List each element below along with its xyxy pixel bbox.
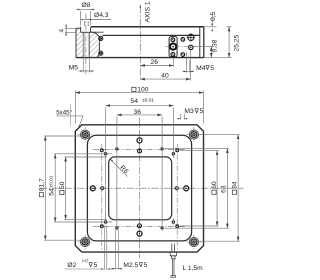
svg-text:Ø8: Ø8 <box>82 2 91 9</box>
connector barrel <box>170 44 176 50</box>
dim square-81,7 left <box>44 136 86 240</box>
M3 / M2,5 row holes <box>115 147 163 229</box>
svg-text:36: 36 <box>134 109 142 116</box>
svg-text:5: 5 <box>94 262 98 269</box>
svg-text:M2.5: M2.5 <box>123 262 138 269</box>
hole row centerline top <box>93 149 186 151</box>
cable exit lines <box>171 244 173 253</box>
dim 54 left <box>54 154 112 222</box>
dim dowel hole leader lines <box>65 226 114 271</box>
svg-text:50: 50 <box>59 181 66 189</box>
left block outline <box>76 27 99 58</box>
svg-text:40: 40 <box>161 72 169 79</box>
body short step line <box>91 31 104 33</box>
hole row centerline bottom <box>93 226 186 228</box>
corner bolt TL <box>81 130 90 139</box>
dim 4 <box>65 24 77 36</box>
body bottom line <box>76 57 204 59</box>
svg-text:60: 60 <box>211 181 218 189</box>
R6 leader <box>110 159 128 177</box>
svg-text:54: 54 <box>49 188 56 196</box>
svg-text:H7: H7 <box>82 258 88 264</box>
left block hatch right part <box>89 32 99 57</box>
dim 40 <box>140 78 190 80</box>
dim M2,5 leader <box>111 230 123 270</box>
dim Ø8 <box>77 9 95 25</box>
svg-text:81,7: 81,7 <box>38 178 45 191</box>
body screw top <box>181 38 185 42</box>
svg-text:5: 5 <box>200 108 204 115</box>
dim 9,38 <box>193 45 214 47</box>
dim M5 <box>79 58 95 73</box>
plan horizontal centerline <box>40 187 244 189</box>
svg-text:R6: R6 <box>118 164 129 175</box>
svg-text:Ø2: Ø2 <box>67 262 76 269</box>
svg-text:25,25: 25,25 <box>234 34 241 51</box>
svg-text:±0,01: ±0,01 <box>48 175 54 187</box>
position target circle <box>187 33 195 41</box>
svg-text:±0,01: ±0,01 <box>142 98 154 104</box>
cable plug body <box>170 252 176 256</box>
dowel holes 54 pattern <box>104 153 174 224</box>
dim M4 depth 5 <box>183 52 195 73</box>
dim 25,25 <box>204 57 231 59</box>
M4 hole <box>189 45 193 49</box>
connector screw top <box>171 38 175 42</box>
dim 0,5 <box>204 26 216 28</box>
svg-text:Ø4,3: Ø4,3 <box>94 12 109 19</box>
platform rounded square <box>109 157 172 220</box>
dim square-60 right <box>180 151 219 226</box>
svg-text:63: 63 <box>221 185 228 193</box>
mystery ext line <box>69 104 71 126</box>
svg-text:84: 84 <box>231 181 238 189</box>
plan vertical centerline <box>139 118 141 259</box>
corner bolt BL <box>81 237 90 246</box>
axis 1 arrow <box>140 5 142 8</box>
left block hatch left part <box>76 28 83 57</box>
dim Ø4,3 <box>84 20 111 27</box>
square-60 corner holes <box>100 148 179 228</box>
recess rounded square <box>87 135 191 241</box>
svg-text:26: 26 <box>151 59 159 66</box>
svg-text:100: 100 <box>137 87 148 94</box>
dim 54 top <box>106 106 174 225</box>
corner bolt centerline crosses <box>78 127 202 249</box>
svg-text:5: 5 <box>144 262 148 269</box>
body screw bottom <box>181 53 185 57</box>
body platform top line <box>91 26 204 28</box>
cable wire <box>172 259 174 276</box>
svg-text:5: 5 <box>210 65 214 72</box>
svg-text:L 1,5m: L 1,5m <box>183 265 204 272</box>
dim 63 right <box>165 148 230 228</box>
svg-text:M4: M4 <box>196 65 206 72</box>
cable plug stem <box>172 256 176 259</box>
svg-text:4: 4 <box>59 29 66 33</box>
svg-text:M5: M5 <box>69 64 79 71</box>
svg-text:M3: M3 <box>184 108 194 115</box>
square-60 mid holes <box>100 186 179 190</box>
outer mid holes <box>90 138 188 236</box>
M5 hole lines <box>83 32 89 57</box>
svg-text:9,38: 9,38 <box>212 39 219 52</box>
svg-text:54: 54 <box>131 98 139 105</box>
corner bolt TR <box>189 130 198 139</box>
corner bolt BR <box>189 237 198 246</box>
counterbore side screws <box>99 36 103 55</box>
dim square-84 right <box>194 135 240 242</box>
dim 26 <box>140 65 173 67</box>
svg-text:0,5: 0,5 <box>210 11 217 21</box>
body right end cap <box>199 27 201 58</box>
dim square-50 left <box>65 157 108 220</box>
connector plate <box>169 37 177 57</box>
connector centerline <box>166 46 195 48</box>
outer frame square with chamfers <box>75 125 203 252</box>
dim square-100 <box>75 91 203 124</box>
body frame top line <box>103 34 200 36</box>
connector screw bottom <box>171 53 175 57</box>
dim 36 top <box>117 115 162 231</box>
axis 1 centerline <box>139 7 141 80</box>
hole centerline <box>85 14 87 75</box>
svg-text:AXIS 1: AXIS 1 <box>144 1 151 22</box>
cable end bar <box>171 276 176 278</box>
